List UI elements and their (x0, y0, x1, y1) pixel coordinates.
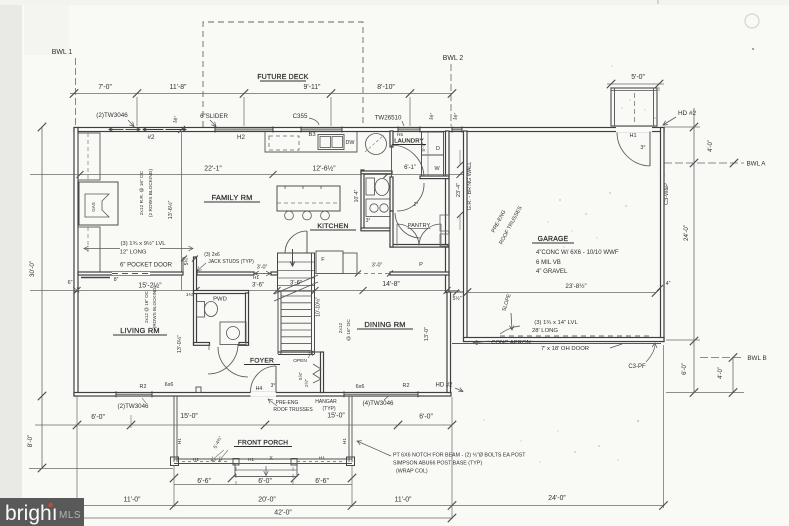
window C355 top (301, 128, 342, 131)
scan speckles (483, 65, 656, 462)
tick y425 x398 (394, 421, 402, 429)
svg-text:CONC APRON: CONC APRON (491, 340, 531, 346)
svg-text:22'-1”: 22'-1” (204, 166, 222, 173)
stair left rail (277, 291, 279, 354)
dim tick top x331 (327, 89, 335, 97)
svg-text:(2)TW3046: (2)TW3046 (118, 403, 150, 410)
window TW26510 top (398, 128, 420, 131)
extension line right y163 (664, 162, 744, 164)
svg-text:3°: 3° (640, 145, 645, 151)
svg-text:2x12: 2x12 (338, 322, 344, 333)
bath toilet (366, 178, 375, 195)
porch west wall (173, 396, 175, 462)
future deck dashed outline (203, 22, 363, 127)
garage interior dim line (467, 292, 656, 294)
line BWL 2 (450, 64, 452, 126)
tick y290 x447 (444, 287, 451, 294)
svg-text:TW26510: TW26510 (375, 115, 402, 122)
svg-text:13'-6½”: 13'-6½” (167, 200, 174, 219)
line y340 right (666, 339, 700, 341)
stair treads (281, 295, 312, 297)
tick y505 x174 (170, 501, 178, 509)
svg-text:5⅝”: 5⅝” (298, 372, 303, 380)
dim line interior y290 (30, 290, 460, 292)
island stools (285, 211, 294, 220)
extension x352 bottom (351, 465, 353, 507)
svg-text:H1: H1 (253, 275, 260, 281)
extension x174 bottom (173, 465, 175, 507)
svg-text:28' LONG: 28' LONG (532, 328, 558, 334)
tick y425 x452 (448, 421, 456, 429)
hall boxes right (440, 215, 449, 231)
svg-text:2x12 @ 16” OC: 2x12 @ 16” OC (144, 290, 149, 323)
svg-text:H1: H1 (319, 456, 325, 462)
dim tick left y127 (38, 123, 46, 131)
svg-text:23'-4”: 23'-4” (456, 183, 462, 197)
svg-text:6'-0”: 6'-0” (419, 414, 433, 421)
svg-text:R2: R2 (140, 384, 147, 390)
dishwasher dashed (269, 136, 299, 150)
svg-text:(3) 1¾ x 14” LVL: (3) 1¾ x 14” LVL (534, 320, 578, 326)
svg-text:6'-6”: 6'-6” (315, 478, 329, 485)
hall door arc a (397, 183, 424, 211)
tick 5.25 wall (192, 256, 198, 262)
stair break diagonals (274, 282, 318, 301)
line BWL B dashed (700, 357, 744, 359)
svg-text:3'-0”: 3'-0” (257, 265, 268, 271)
svg-text:OPEN: OPEN (293, 358, 307, 364)
svg-text:15'-2½”: 15'-2½” (138, 282, 162, 290)
dim tick right y127 (690, 123, 698, 131)
house east wall lower (dining) (447, 292, 451, 393)
svg-text:JACK STUDS (TYP): JACK STUDS (TYP) (208, 259, 254, 265)
svg-text:(2)TW3046: (2)TW3046 (96, 112, 128, 119)
laundry south wall (420, 176, 449, 179)
svg-text:6x6: 6x6 (165, 382, 174, 388)
svg-text:13'-0½”: 13'-0½” (176, 335, 183, 353)
svg-text:4'-0”: 4'-0” (718, 367, 724, 379)
svg-text:H1: H1 (248, 457, 254, 463)
lvl extent arrows (84, 248, 120, 250)
pantry door arcs (397, 224, 419, 246)
firebox (85, 194, 109, 217)
dim line top (70, 93, 452, 95)
svg-text:FRONT PORCH: FRONT PORCH (238, 440, 288, 447)
svg-text:7'-0”: 7'-0” (98, 84, 112, 91)
svg-text:ROOF TRUSSES: ROOF TRUSSES (273, 407, 313, 413)
closet down arrow (292, 249, 294, 266)
dim tick top x244 (240, 89, 248, 97)
svg-text:14'-8”: 14'-8” (382, 281, 400, 288)
pantry north wall (390, 245, 448, 248)
svg-text:(3) 1¾ x 9½” LVL: (3) 1¾ x 9½” LVL (120, 240, 166, 247)
closet door leaf (306, 231, 308, 253)
svg-text:6x6: 6x6 (356, 384, 365, 390)
extension line x331 (330, 97, 332, 126)
svg-text:5½”: 5½” (453, 295, 462, 302)
watermark box (0, 498, 84, 526)
tick y425 x265 (261, 421, 269, 429)
powder north wall (194, 291, 249, 294)
dim tick top x452 (448, 89, 456, 97)
svg-text:LAUNDRY: LAUNDRY (394, 139, 423, 145)
svg-text:(WRAP COL): (WRAP COL) (396, 469, 428, 475)
bath south wall (361, 228, 392, 231)
svg-text:SIMPSON ABU66 POST BASE (TYP): SIMPSON ABU66 POST BASE (TYP) (393, 461, 482, 467)
dim tick right y392.5 (690, 388, 698, 396)
pocket door pocket bar (81, 277, 110, 279)
line BWL 1 (75, 58, 77, 126)
svg-text:3°: 3° (366, 218, 371, 224)
svg-text:6 MIL VB: 6 MIL VB (536, 259, 561, 266)
svg-text:FAMILY RM: FAMILY RM (212, 193, 253, 202)
svg-text:R2: R2 (403, 383, 410, 389)
line y392.5 right (666, 392, 744, 394)
dim tick top x74 (70, 89, 78, 97)
tick y290 x77 (74, 287, 81, 294)
bath north wall (361, 171, 392, 174)
kitchen counter (265, 132, 357, 152)
tick y174 x80 (77, 171, 84, 178)
window 6ft slider top (215, 128, 273, 131)
powder south wall (194, 343, 210, 346)
bath west wall (361, 170, 364, 230)
stair bottom (278, 351, 315, 353)
tick y505 x352 (348, 501, 356, 509)
interior line family east (181, 131, 183, 290)
powder door arc (208, 344, 238, 374)
stoop extension lines (610, 87, 612, 91)
svg-text:DW: DW (346, 140, 356, 146)
tick y425 x77 (73, 421, 81, 429)
tick y478 x295 (291, 474, 299, 482)
wall vertical x195 (hall/living) (194, 257, 197, 345)
kitchen sink (318, 135, 344, 150)
svg-text:24'-0”: 24'-0” (683, 225, 690, 241)
svg-text:MLS: MLS (59, 510, 81, 521)
svg-text:6” POCKET DOOR: 6” POCKET DOOR (120, 262, 173, 269)
closet door swing (285, 231, 307, 253)
svg-text:BWL A: BWL A (746, 161, 766, 168)
svg-text:H2: H2 (237, 134, 245, 141)
island top ticks (284, 186, 286, 189)
svg-text:PANTRY: PANTRY (408, 223, 431, 229)
fireplace box (79, 182, 118, 225)
dim line stoop 5'-0" (607, 83, 664, 85)
closet bifold (313, 364, 321, 383)
svg-text:3'-0”: 3'-0” (372, 263, 383, 269)
dim line y505 (60, 505, 664, 507)
svg-text:P: P (419, 262, 423, 268)
pocket door wall (78, 272, 183, 275)
svg-text:C3-W&P: C3-W&P (664, 183, 670, 205)
svg-text:KITCHEN: KITCHEN (317, 223, 348, 230)
wall y273 segment b (271, 272, 278, 275)
svg-text:15'-0”: 15'-0” (180, 413, 198, 420)
garage east wall (661, 128, 665, 342)
laundry door leaf+arc (391, 145, 393, 177)
svg-text:6'-1”: 6'-1” (404, 165, 416, 171)
hall door arc b (395, 213, 420, 238)
watermark t-dot (48, 503, 52, 507)
wall y273 segment c (390, 272, 449, 275)
front door swing (250, 366, 276, 393)
wall jog 5.5in (451, 291, 464, 293)
svg-text:C3-PF: C3-PF (628, 364, 646, 370)
dim tick right y341 (690, 337, 698, 345)
svg-text:H5: H5 (397, 132, 403, 138)
svg-text:6'-0”: 6'-0” (91, 414, 105, 421)
front door leaf (275, 366, 277, 393)
svg-text:HD #2: HD #2 (435, 383, 453, 389)
tick y174 x460 (457, 171, 464, 178)
svg-text:8'-0”: 8'-0” (27, 435, 34, 447)
exterior wall top (house+garage) (74, 128, 664, 132)
svg-text:12” LONG: 12” LONG (120, 250, 147, 256)
svg-text:FOYER: FOYER (250, 358, 274, 365)
dim line y518 (70, 517, 452, 519)
svg-text:8”: 8” (114, 277, 119, 283)
garage bottom wall (464, 338, 665, 342)
kitchen island (277, 186, 340, 211)
powder vanity (220, 322, 246, 345)
window small right top (452, 128, 462, 131)
powder toilet (197, 302, 205, 318)
window (2)TW3046 b top (143, 129, 164, 131)
svg-text:6”: 6” (68, 280, 73, 286)
tick y290 x315 (312, 287, 319, 294)
svg-text:FUTURE DECK: FUTURE DECK (257, 74, 308, 81)
svg-text:10'-10½”: 10'-10½” (315, 297, 322, 317)
dim line porch y478 (174, 484, 352, 486)
svg-text:H4: H4 (256, 386, 263, 392)
garage west wall (464, 131, 468, 342)
svg-text:23'-8½”: 23'-8½” (565, 282, 586, 290)
tick y478 x174 (170, 474, 178, 482)
dim line interior y174 (30, 174, 463, 176)
svg-text:PRE-ENG: PRE-ENG (276, 400, 299, 406)
svg-text:(2 ROWS BLOCKING): (2 ROWS BLOCKING) (148, 168, 154, 217)
stoop door opening in garage wall (616, 127, 652, 132)
svg-text:8'-10”: 8'-10” (377, 84, 395, 91)
svg-text:5'-0”: 5'-0” (631, 74, 645, 81)
opening dashes 3'-0 b (315, 273, 390, 275)
svg-text:10'-4”: 10'-4” (354, 189, 360, 202)
svg-text:9'-11”: 9'-11” (304, 84, 322, 91)
svg-text:C355: C355 (293, 113, 308, 120)
front door opening (251, 392, 277, 397)
svg-text:7' x 18' OH DOOR: 7' x 18' OH DOOR (541, 346, 589, 352)
svg-text:4'-0”: 4'-0” (708, 140, 714, 152)
extension line left y468 (29, 468, 173, 470)
svg-text:GARAGE: GARAGE (538, 236, 569, 243)
conc apron line (452, 343, 661, 345)
exterior wall bottom house (74, 393, 451, 397)
svg-text:DINING RM: DINING RM (364, 320, 405, 329)
tick y478 x352 (348, 474, 356, 482)
dim line right vertical 24' (693, 108, 695, 393)
hall-bath door wall (390, 177, 393, 211)
svg-text:30'-0”: 30'-0” (29, 261, 36, 277)
svg-text:4”: 4” (666, 281, 671, 287)
stair closet box (278, 253, 315, 291)
svg-text:6”SLIDER: 6”SLIDER (200, 113, 228, 120)
svg-text:(3) 2x6: (3) 2x6 (204, 252, 220, 258)
svg-text:B3: B3 (308, 132, 315, 138)
svg-text:4” GRAVEL: 4” GRAVEL (536, 268, 568, 275)
dim tick top x410 (406, 89, 414, 97)
svg-text:3'-6”: 3'-6” (290, 280, 302, 287)
washer dryer closet (422, 132, 444, 178)
svg-text:(ROWS BLOCKING): (ROWS BLOCKING) (152, 285, 157, 328)
window (4)TW3046 bottom (344, 393, 418, 396)
window (2)TW3046 a top (109, 129, 124, 131)
svg-text:G.R. - BR’NG WALL: G.R. - BR’NG WALL (467, 162, 473, 211)
cabinet right of fridge (343, 253, 357, 274)
svg-text:PWD: PWD (213, 297, 227, 303)
corner lazy susan (366, 134, 387, 155)
svg-text:3'-6”: 3'-6” (252, 282, 264, 289)
closet shelves (278, 261, 314, 263)
svg-text:4”CONC W/ 6X6 - 10/10 WWF: 4”CONC W/ 6X6 - 10/10 WWF (536, 249, 619, 256)
svg-text:12'-6½”: 12'-6½” (312, 165, 336, 173)
svg-text:@ 16” OC: @ 16” OC (346, 319, 352, 341)
tick y290 x196 (193, 287, 200, 294)
porch post mid b (291, 459, 297, 466)
porch east wall (348, 396, 350, 462)
dim tick left y468 (38, 464, 46, 472)
svg-text:H1: H1 (342, 438, 348, 444)
dim line left vertical (41, 127, 43, 469)
svg-text:5'-7”: 5'-7” (421, 142, 426, 152)
pantry west wall (390, 211, 393, 247)
svg-text:3°: 3° (271, 383, 276, 389)
tick y290 x277 (274, 287, 281, 294)
svg-text:6'-0”: 6'-0” (682, 363, 688, 375)
svg-text:BWL B: BWL B (747, 355, 766, 362)
opening dashes 3'-0 a (254, 273, 271, 275)
dim line y425 (35, 424, 452, 426)
svg-text:15'-0”: 15'-0” (327, 413, 345, 420)
tick y174 x387 (384, 171, 391, 178)
svg-text:F: F (321, 257, 325, 263)
wall y273 segment a (197, 272, 254, 275)
dim line 4'-0" vert (732, 358, 734, 394)
svg-text:42'-0”: 42'-0” (274, 510, 292, 517)
svg-text:(4)TW3046: (4)TW3046 (363, 400, 395, 407)
svg-text:6'-6”: 6'-6” (197, 478, 211, 485)
svg-text:11'-0”: 11'-0” (395, 497, 413, 504)
laundry west wall (390, 131, 393, 147)
svg-text:D: D (436, 146, 440, 152)
interior bearing wall right of house (446, 131, 450, 293)
dim tick top x137 (133, 89, 141, 97)
tick y425 x131 (127, 421, 135, 429)
extension line garage right wall down (663, 345, 665, 508)
tick y290 x363 (360, 287, 367, 294)
note leader to porch post (357, 441, 391, 456)
foyer closet wall (321, 352, 324, 393)
svg-text:11'-8”: 11'-8” (170, 84, 188, 91)
svg-text:H1: H1 (629, 133, 636, 139)
svg-text:H1: H1 (177, 438, 183, 444)
exterior wall left (74, 128, 78, 397)
fireplace cabinet lower (78, 227, 100, 272)
extension line x410 (409, 97, 411, 126)
porch leader dashes (297, 461, 344, 463)
svg-text:2½”: 2½” (303, 379, 309, 387)
garage man-door leaf+swing (649, 132, 651, 167)
tick y478 x232 (228, 474, 236, 482)
svg-text:(TYP): (TYP) (322, 406, 335, 412)
window (2)TW3046 bottom (116, 393, 152, 396)
scan artifact circle top right (745, 14, 759, 28)
svg-text:PT 6X6 NOTCH FOR BEAM - (2) ½”: PT 6X6 NOTCH FOR BEAM - (2) ½”Ø BOLTS EA… (393, 452, 526, 459)
stoop outline (611, 88, 657, 126)
dim tick left y396 (38, 392, 46, 400)
svg-text:24'-0”: 24'-0” (548, 495, 566, 502)
fireplace cabinet upper (78, 133, 100, 180)
tick y505 x663.5 (659, 501, 667, 509)
svg-text:11'-0”: 11'-0” (124, 497, 142, 504)
foyer arc b (218, 347, 248, 377)
bath vanity (366, 199, 390, 217)
svg-text:20'-0”: 20'-0” (258, 497, 276, 504)
extension x452 bottom (451, 397, 453, 519)
svg-text:HANGAR: HANGAR (315, 399, 337, 405)
svg-text:BWL 1: BWL 1 (52, 49, 73, 56)
svg-text:GAS: GAS (91, 202, 96, 212)
porch post left (171, 457, 179, 466)
porch post ext dashes (235, 467, 237, 486)
stair right rail (311, 253, 313, 354)
porch post mid a (233, 459, 239, 466)
tick y505 x452 (448, 501, 456, 509)
tick y505 x77 (73, 501, 81, 509)
svg-text:2x12 R.R. @ 16” OC: 2x12 R.R. @ 16” OC (139, 170, 145, 215)
extension line x137 (136, 97, 138, 126)
extension line x244 (243, 97, 245, 126)
porch south beam (174, 458, 352, 460)
extension x77 bottom (76, 397, 78, 519)
svg-text:BWL 2: BWL 2 (443, 55, 464, 62)
powder east wall (246, 293, 249, 345)
extension line right top (664, 126, 700, 128)
svg-text:6'-0”: 6'-0” (258, 478, 272, 485)
svg-text:2°: 2° (414, 202, 419, 208)
svg-text:13'-0”: 13'-0” (424, 327, 430, 341)
porch post right (347, 457, 355, 466)
extension x131 y425 (130, 415, 132, 428)
tick y174 x273 (270, 171, 277, 178)
dim tick right y163 (690, 159, 698, 167)
svg-text:#2: #2 (148, 134, 155, 141)
svg-text:H1: H1 (193, 457, 199, 463)
closet wall top (312, 351, 324, 353)
fridge (316, 251, 343, 274)
garage OH door dashes (500, 335, 650, 337)
porch step (235, 464, 297, 477)
